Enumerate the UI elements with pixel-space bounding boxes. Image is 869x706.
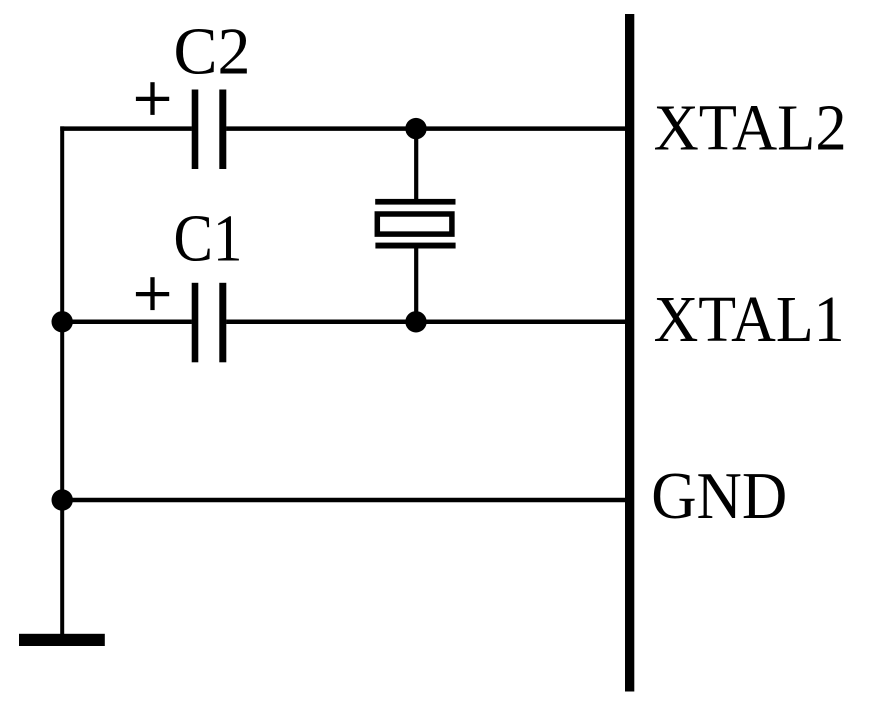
- wire XTAL2 left segment (left rail to C2 left plate): [60, 126, 192, 131]
- crystal Y1: [375, 199, 455, 249]
- node junction dot XTAL2/crystal: [405, 118, 426, 139]
- svg-text:C1: C1: [174, 203, 243, 276]
- polarity plus of C2: [136, 82, 169, 115]
- capacitor C2: [192, 90, 227, 170]
- wire crystal bottom lead: [414, 248, 418, 322]
- wire crystal top lead: [414, 129, 418, 200]
- svg-text:XTAL1: XTAL1: [654, 283, 845, 356]
- node junction dot XTAL1/crystal: [405, 311, 426, 332]
- wire XTAL1 left segment (left rail to C1 left plate): [60, 320, 192, 325]
- svg-text:C2: C2: [174, 16, 251, 89]
- wire XTAL2 right segment (C2 right plate to IC): [226, 126, 625, 131]
- IC edge (microcontroller pin bar): [625, 14, 634, 692]
- wire left vertical rail: [60, 126, 64, 634]
- node junction dot left rail / XTAL1: [52, 311, 73, 332]
- capacitor C1: [192, 283, 227, 363]
- svg-text:XTAL2: XTAL2: [654, 92, 847, 165]
- polarity plus of C1: [136, 277, 169, 310]
- wire XTAL1 right segment (C1 right plate to IC): [226, 320, 625, 325]
- ground symbol: [19, 634, 105, 646]
- wire GND horizontal: [60, 498, 625, 503]
- node junction dot left rail / GND: [52, 489, 73, 510]
- svg-text:GND: GND: [651, 459, 787, 533]
